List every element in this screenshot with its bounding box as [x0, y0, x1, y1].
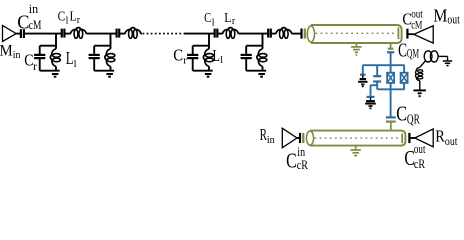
svg-text:C: C — [173, 45, 183, 64]
capacitor C_QM — [388, 48, 393, 50]
TL2 center conductor dashed — [315, 137, 401, 139]
svg-text:L: L — [70, 10, 77, 25]
wire qubit to C_QR — [390, 89, 392, 117]
svg-text:L: L — [224, 11, 231, 26]
capacitor qubit shunt1 plate black — [360, 78, 366, 80]
node 1 stub — [55, 34, 57, 49]
svg-text:in: in — [267, 134, 275, 146]
TL2 inner end plate — [401, 133, 403, 143]
capacitor C_r node 1 — [34, 54, 45, 56]
shunt bottom bar node 1 — [40, 70, 60, 72]
capacitor qubit shunt2 — [373, 75, 381, 77]
capacitor C_l3 — [214, 29, 216, 38]
inductor L_l node 2 — [105, 49, 111, 67]
svg-text:C: C — [204, 11, 211, 26]
wire TL1 to M_out — [408, 33, 414, 35]
capacitor C_r leg node 4 — [245, 46, 247, 55]
inductor L_r3 — [222, 28, 238, 34]
svg-text:cR: cR — [297, 157, 308, 172]
wire L_r3 to C_l4 — [239, 33, 268, 35]
ground qubit shunt3 — [365, 103, 376, 105]
capacitor qubit shunt3 plate black — [366, 100, 375, 102]
capacitor C_r node 4 — [241, 54, 252, 56]
josephson junction JJ2 leg — [403, 65, 405, 73]
capacitor C_QR stub olive — [390, 122, 392, 130]
node 3 stub — [208, 34, 210, 49]
josephson junction JJ2 lower leg — [403, 83, 405, 89]
ground node 2 — [106, 73, 113, 75]
capacitor C_r leg node 2 — [93, 46, 95, 55]
svg-text:C: C — [17, 11, 29, 33]
qubit riser to shunt3 — [370, 85, 372, 96]
capacitor TL1 input plate black — [300, 29, 302, 39]
svg-text:l: l — [212, 17, 215, 28]
capacitor C_r leg node 1 — [39, 46, 41, 55]
wire C_l2 to L_r2 — [120, 33, 125, 35]
dotted wire continuation — [143, 33, 185, 35]
inductor flux coupling coil — [416, 67, 420, 80]
wire L_r2 to dots — [141, 33, 142, 35]
wire L_r4 to TL1 coupler — [292, 33, 301, 35]
shunt top bar node 4 — [246, 45, 262, 47]
wire R_in to coupler — [297, 137, 299, 139]
TL1 center conductor dashed — [316, 32, 397, 34]
capacitor C_r lower leg node 2 — [93, 59, 95, 71]
wire shunt2 to bottom bar — [376, 82, 378, 89]
inductor L_l node 4 — [257, 49, 263, 67]
svg-text:C: C — [396, 102, 407, 126]
flux pump source circle 2 — [430, 51, 438, 62]
svg-text:M: M — [0, 43, 13, 60]
capacitor qubit shunt1 plate blue — [360, 74, 366, 76]
capacitor TL1 output plate black — [406, 29, 408, 39]
shunt top bar node 3 — [193, 45, 209, 47]
svg-text:C: C — [398, 40, 407, 61]
capacitor C_r node 2 — [89, 54, 100, 56]
svg-text:out: out — [445, 134, 458, 148]
node 2 stub — [110, 34, 112, 49]
svg-text:QM: QM — [407, 47, 419, 61]
svg-text:M: M — [433, 5, 447, 25]
svg-text:l: l — [74, 59, 77, 70]
svg-text:R: R — [260, 125, 267, 144]
capacitor C_QR — [386, 116, 396, 118]
capacitor qubit shunt3 plate blue — [367, 96, 375, 98]
svg-text:in: in — [13, 49, 21, 61]
svg-text:out: out — [447, 13, 460, 27]
transmission line resonator TL2 body — [310, 131, 405, 146]
flux pump source circle 1 — [424, 51, 432, 62]
svg-text:cR: cR — [414, 156, 425, 171]
wire C_QM to qubit — [390, 53, 392, 65]
port R_in triangle — [282, 128, 297, 148]
transmission line resonator TL1 body — [311, 25, 402, 43]
ground TL2 — [355, 146, 357, 150]
capacitor C_r lower leg node 4 — [245, 59, 247, 71]
capacitor C_r node 3 — [187, 54, 198, 56]
capacitor C_r leg node 3 — [192, 46, 194, 55]
ground node 1 — [52, 73, 59, 75]
shunt top bar node 1 — [40, 45, 56, 47]
wire flux source to coil — [420, 61, 426, 67]
shunt top bar node 2 — [94, 45, 110, 47]
capacitor C_QM stub olive — [390, 43, 392, 48]
port M_out triangle — [414, 26, 433, 43]
port M_in triangle — [3, 26, 17, 42]
capacitor TL2 input plate olive — [302, 133, 304, 143]
inductor L_l node 1 — [50, 49, 56, 67]
wire TL2 to R_out — [410, 137, 415, 139]
capacitor qubit shunt1 stub — [362, 75, 364, 78]
TL1 inner end plate — [397, 28, 399, 40]
svg-text:l: l — [220, 55, 223, 66]
ground node 4 — [258, 73, 265, 75]
ground flux left — [413, 89, 426, 91]
ground node 3 — [205, 73, 212, 75]
svg-text:QR: QR — [407, 112, 420, 127]
svg-text:r: r — [183, 54, 187, 66]
port R_out triangle — [415, 129, 433, 147]
qubit top bar — [363, 64, 405, 66]
inductor L_r4 — [276, 28, 292, 34]
svg-text:L: L — [66, 48, 74, 68]
josephson junction JJ2 — [401, 73, 408, 83]
wire C_l3 to L_r3 — [218, 33, 222, 35]
qubit link bar — [371, 84, 378, 86]
svg-text:C: C — [58, 10, 66, 25]
wire L_r1 to C_l2 — [87, 33, 116, 35]
josephson junction JJ1 leg — [390, 65, 392, 73]
wire C_l1 to L_r1 — [65, 33, 70, 35]
josephson junction JJ1 lower leg — [390, 83, 392, 89]
capacitor qubit shunt2 leg — [376, 65, 378, 75]
inductor L_l node 3 — [203, 49, 209, 67]
capacitor C_r lower leg node 3 — [192, 59, 194, 71]
capacitor C_l2 — [115, 29, 117, 38]
ground TL1 — [355, 43, 357, 46]
TL2 end ellipse — [306, 131, 313, 145]
shunt bottom bar node 4 — [246, 70, 266, 72]
qubit bottom bar — [377, 88, 404, 90]
svg-text:l: l — [66, 16, 69, 27]
capacitor C_l1 — [61, 29, 63, 38]
ground qubit shunt1 — [358, 81, 367, 83]
capacitor qubit shunt1 leg — [362, 65, 364, 74]
wire flux source to ground — [438, 55, 447, 57]
shunt bottom bar node 2 — [94, 70, 114, 72]
wire M_in to C_cM_in — [16, 33, 20, 35]
capacitor C_cM_in — [20, 29, 22, 38]
TL1 end ellipse — [307, 26, 314, 42]
josephson junction JJ1 — [387, 73, 394, 83]
wire dots to C_l3 — [184, 33, 214, 35]
inductor L_r2 — [125, 28, 141, 34]
capacitor TL2 output plate black — [408, 133, 410, 143]
svg-text:L: L — [213, 46, 221, 65]
svg-text:cM: cM — [29, 17, 42, 32]
wire flux coil to ground — [419, 81, 421, 90]
capacitor C_l4 — [267, 29, 269, 38]
svg-text:cM: cM — [411, 19, 422, 31]
shunt bottom bar node 3 — [193, 70, 213, 72]
svg-text:C: C — [286, 149, 297, 173]
node 4 stub — [262, 34, 264, 49]
inductor L_r1 — [70, 28, 86, 34]
svg-text:r: r — [33, 59, 37, 73]
capacitor C_r lower leg node 1 — [39, 59, 41, 71]
wire C_l4 to L_r4 — [272, 33, 276, 35]
capacitor TL1 input plate olive — [304, 29, 306, 39]
wire C_cM_in to C_l1 — [25, 33, 61, 35]
capacitor TL2 input plate black — [299, 133, 301, 143]
svg-text:out: out — [414, 141, 426, 156]
svg-text:in: in — [29, 1, 39, 16]
ground flux right — [443, 60, 452, 62]
capacitor qubit shunt3 stub — [370, 98, 372, 101]
